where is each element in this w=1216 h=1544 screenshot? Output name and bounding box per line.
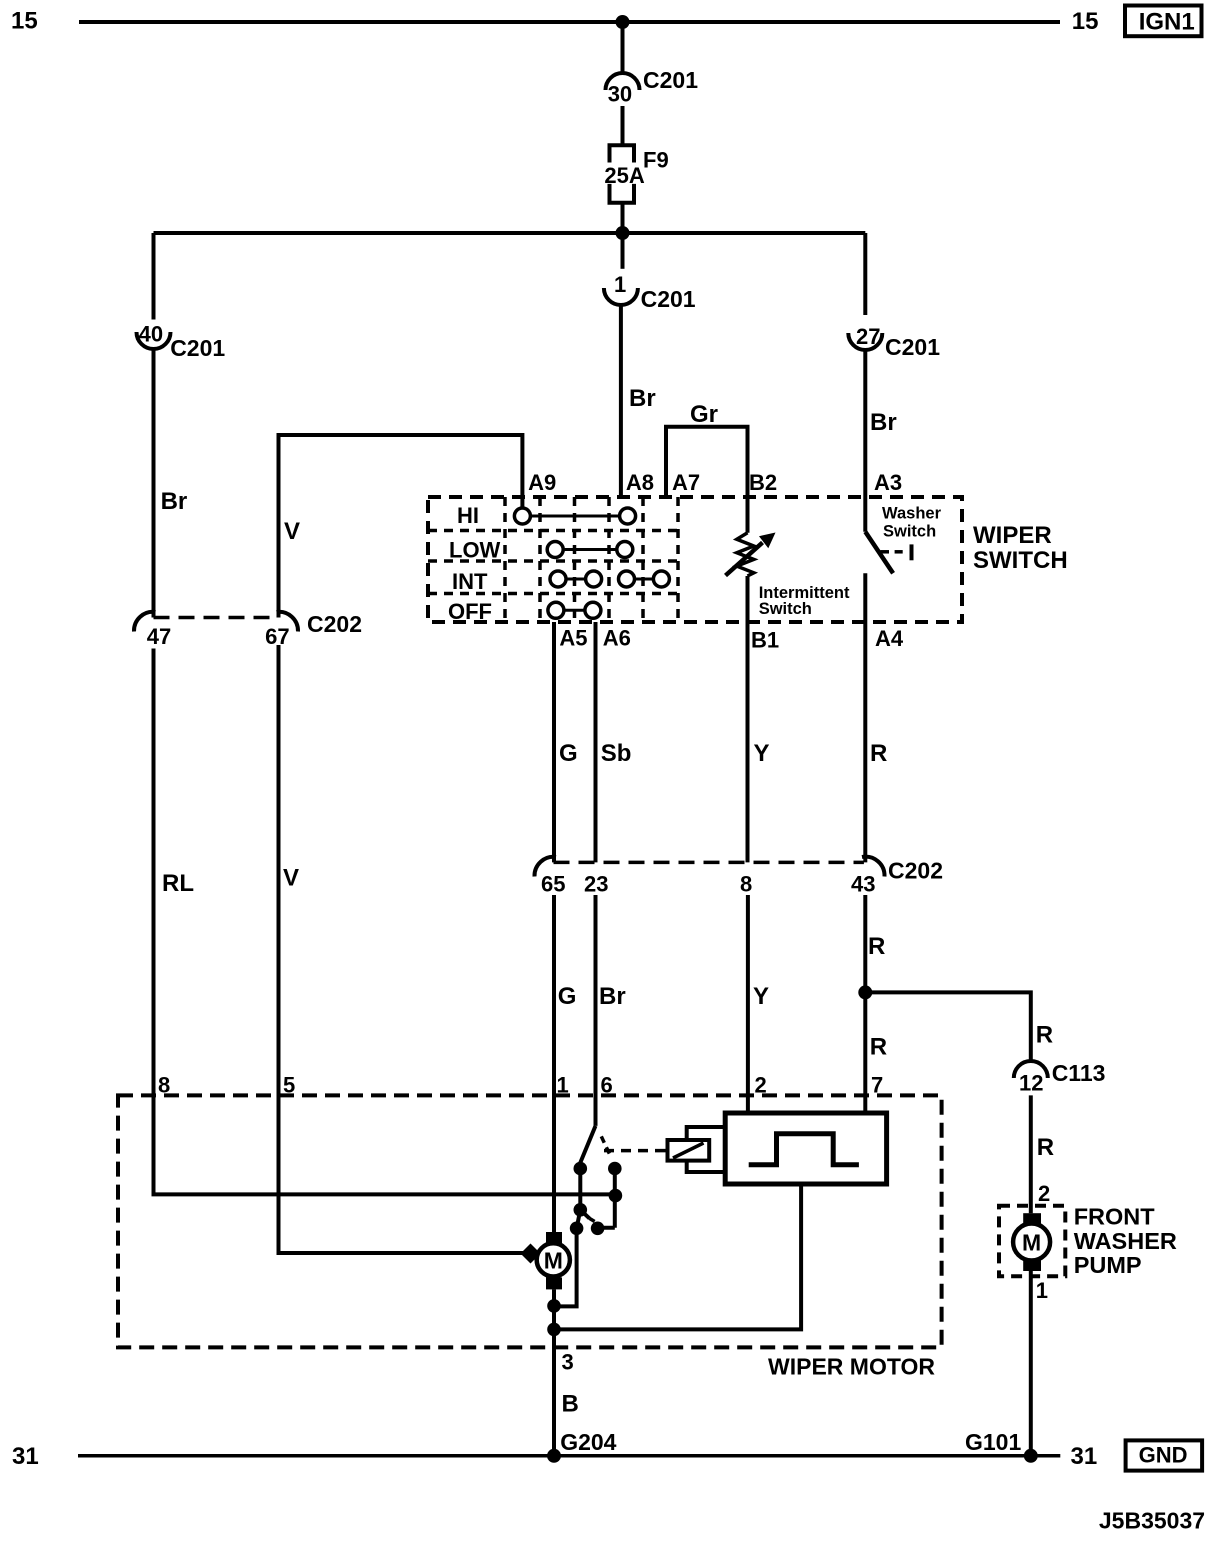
fuse F9 25A: [604, 145, 668, 203]
svg-text:INT: INT: [452, 569, 488, 594]
junction R branch: [858, 985, 872, 999]
svg-text:A7: A7: [672, 470, 700, 495]
HI contacts: [514, 508, 635, 524]
svg-text:5: 5: [283, 1073, 295, 1098]
svg-text:FRONT: FRONT: [1074, 1204, 1156, 1230]
svg-text:V: V: [283, 864, 299, 891]
svg-text:A8: A8: [626, 470, 654, 495]
svg-text:47: 47: [147, 624, 171, 649]
wire A4 down: [863, 573, 867, 862]
svg-text:3: 3: [562, 1350, 574, 1375]
svg-text:2: 2: [755, 1073, 767, 1098]
svg-text:G101: G101: [965, 1429, 1021, 1455]
switch grid dashed rows: [428, 531, 678, 594]
node IGN1 box: [1125, 6, 1202, 37]
svg-text:Br: Br: [161, 488, 188, 515]
wire Br to motor pin 6 switch pivot: [594, 895, 598, 1126]
svg-text:B2: B2: [749, 470, 777, 495]
svg-text:R: R: [870, 1034, 887, 1061]
wire G to motor pin 1 and terminal: [552, 895, 556, 1232]
wire arm2 to right vertical: [598, 1226, 615, 1230]
motor terminal left diamond: [521, 1244, 541, 1264]
intermittent switch variable resistor: [726, 533, 776, 577]
wire from rail to connector C201-30: [621, 22, 625, 72]
svg-text:40: 40: [139, 322, 163, 347]
wire A5 G down: [552, 622, 556, 862]
pulse box bracket: [687, 1127, 726, 1172]
junction G101: [1024, 1449, 1038, 1463]
LOW contacts: [547, 542, 633, 558]
connector C201 pin 30: [606, 67, 699, 107]
ground rail 31: [78, 1454, 1060, 1458]
svg-text:Y: Y: [753, 983, 769, 1010]
svg-text:IGN1: IGN1: [1139, 8, 1195, 35]
wire right branch rail2 down to connector C201-27: [863, 233, 867, 315]
svg-text:23: 23: [584, 872, 608, 897]
wire rail 2: [154, 231, 866, 235]
svg-text:31: 31: [12, 1443, 39, 1470]
svg-text:A6: A6: [603, 625, 631, 650]
svg-text:HI: HI: [457, 503, 479, 528]
wire V branch from C202-67 up and over to switch pin A9: [279, 435, 523, 618]
svg-text:M: M: [1022, 1230, 1041, 1256]
svg-text:25A: 25A: [604, 163, 644, 188]
wire right contact down: [613, 1169, 617, 1228]
svg-text:RL: RL: [162, 870, 194, 897]
wire motor bottom to ground: [552, 1289, 556, 1455]
svg-text:C201: C201: [170, 335, 225, 361]
svg-text:R: R: [1037, 1134, 1054, 1161]
svg-text:A4: A4: [875, 626, 904, 651]
svg-text:R: R: [868, 933, 885, 960]
svg-text:31: 31: [1071, 1443, 1098, 1470]
wire A8 down: [619, 305, 623, 497]
svg-text:15: 15: [1072, 8, 1099, 35]
wire Y to motor pin 2: [746, 895, 750, 1113]
svg-text:1: 1: [614, 272, 626, 297]
wire B1 Y down: [746, 576, 750, 862]
svg-text:B: B: [562, 1391, 579, 1418]
svg-text:C113: C113: [1052, 1060, 1106, 1086]
wire A6 Sb down: [594, 622, 598, 862]
svg-text:43: 43: [851, 872, 875, 897]
dashed link to pulse relay: [604, 1149, 660, 1153]
wire pump to ground rail: [1029, 1271, 1033, 1456]
svg-text:C201: C201: [641, 286, 696, 312]
wire RL from C202-47 down into motor box pin 8 and to park switch: [154, 649, 616, 1195]
svg-text:G: G: [559, 740, 578, 767]
switch grid dashed verticals: [505, 497, 678, 622]
relay connector box with diagonal: [668, 1140, 710, 1161]
svg-text:12: 12: [1019, 1071, 1043, 1096]
junction G204: [547, 1449, 561, 1463]
park switch arm solid: [580, 1126, 596, 1164]
svg-text:Br: Br: [599, 983, 626, 1010]
svg-text:Y: Y: [754, 740, 770, 767]
OFF contacts: [548, 602, 601, 618]
svg-text:WIPER: WIPER: [973, 522, 1052, 549]
svg-text:A3: A3: [874, 470, 902, 495]
svg-text:1: 1: [557, 1073, 569, 1098]
svg-text:C201: C201: [885, 334, 940, 360]
svg-text:WIPER MOTOR: WIPER MOTOR: [768, 1354, 935, 1380]
connector C201 pin 40: [137, 322, 226, 361]
wire Gr loop to pins A7 B2: [666, 427, 748, 533]
svg-text:F9: F9: [643, 148, 669, 173]
svg-text:LOW: LOW: [449, 538, 501, 563]
washer switch blade: [865, 532, 893, 574]
wire Br from C201-1 cup to switch pin A8: [621, 233, 625, 269]
park switch arm dashed: [601, 1136, 611, 1157]
svg-text:8: 8: [740, 872, 752, 897]
connector C202 pins 47 67: [134, 611, 362, 649]
svg-text:65: 65: [541, 872, 565, 897]
svg-text:PUMP: PUMP: [1074, 1252, 1142, 1278]
node GND box: [1126, 1440, 1203, 1470]
svg-text:V: V: [284, 518, 300, 545]
svg-text:Switch: Switch: [883, 523, 936, 541]
wire bus 15 top rail: [79, 20, 1060, 24]
wire R C113 to pump: [1029, 1095, 1033, 1213]
wire left contact down to motor bottom junction: [554, 1228, 577, 1306]
wire connector to fuse: [621, 106, 625, 145]
svg-text:R: R: [870, 740, 887, 767]
svg-text:C202: C202: [888, 858, 943, 884]
connector C201 pin 27: [848, 324, 940, 360]
svg-text:Gr: Gr: [690, 401, 718, 428]
junction rail 2: [616, 226, 630, 240]
svg-text:7: 7: [871, 1073, 883, 1098]
svg-text:15: 15: [11, 8, 38, 35]
INT contacts: [550, 571, 669, 587]
svg-text:SWITCH: SWITCH: [973, 547, 1068, 574]
svg-text:Br: Br: [870, 409, 897, 436]
svg-text:A5: A5: [559, 625, 587, 650]
washer switch detent dashes: [881, 550, 890, 554]
junction top rail: [616, 15, 630, 29]
svg-text:G204: G204: [560, 1429, 616, 1455]
svg-text:A9: A9: [528, 470, 556, 495]
svg-text:6: 6: [601, 1073, 613, 1098]
wire R to junction and motor pin 7: [863, 895, 867, 1113]
wire Br from C201-27 to switch pin A3: [863, 350, 867, 532]
svg-text:M: M: [544, 1247, 563, 1273]
wire fuse to rail 2: [621, 203, 625, 233]
svg-text:C201: C201: [643, 67, 698, 93]
svg-text:2: 2: [1038, 1181, 1050, 1206]
svg-text:Switch: Switch: [759, 600, 812, 618]
wire pivot to lower contact: [577, 1210, 581, 1229]
park switch arm 2: [580, 1210, 589, 1219]
wire pulse box bottom loop: [554, 1184, 801, 1329]
wiper motor M circle: [537, 1243, 570, 1276]
motor terminal bottom square: [546, 1277, 562, 1289]
svg-text:30: 30: [608, 82, 632, 107]
svg-text:B1: B1: [751, 628, 779, 653]
wire R branch to washer pump column: [865, 992, 1031, 1061]
svg-text:Sb: Sb: [601, 740, 632, 767]
connector C113 pin 12: [1014, 1060, 1106, 1096]
pump motor M: [1013, 1213, 1050, 1271]
svg-text:Washer: Washer: [882, 505, 942, 523]
svg-text:Br: Br: [629, 385, 656, 412]
wire left branch down to connector C201-40: [152, 233, 156, 320]
wire Br from C201-40 to C202-47: [152, 349, 156, 618]
svg-text:1: 1: [1036, 1278, 1048, 1303]
pulse waveform: [749, 1134, 859, 1165]
svg-text:R: R: [1036, 1022, 1053, 1049]
connector C201 pin 1: [604, 272, 696, 312]
svg-text:OFF: OFF: [448, 599, 492, 624]
wiper switch dashed box: [428, 497, 962, 622]
svg-text:WASHER: WASHER: [1074, 1228, 1177, 1254]
svg-text:27: 27: [856, 324, 880, 349]
svg-text:C202: C202: [307, 611, 362, 637]
pulse generator box: [725, 1113, 886, 1184]
svg-text:8: 8: [158, 1073, 170, 1098]
wiper motor dashed box: [118, 1095, 942, 1347]
motor terminal top square: [546, 1232, 562, 1246]
svg-text:GND: GND: [1139, 1443, 1188, 1468]
front washer pump dashed box: [999, 1206, 1065, 1277]
connector C202 pins 65 23 8 43: [534, 857, 942, 897]
svg-text:J5B35037: J5B35037: [1099, 1507, 1205, 1533]
wire V from C202-67 down into motor box pin 5 to motor terminal: [279, 645, 525, 1253]
wire pivot chain left: [578, 1169, 582, 1210]
park switch contact dots: [574, 1162, 588, 1176]
svg-text:G: G: [558, 983, 577, 1010]
